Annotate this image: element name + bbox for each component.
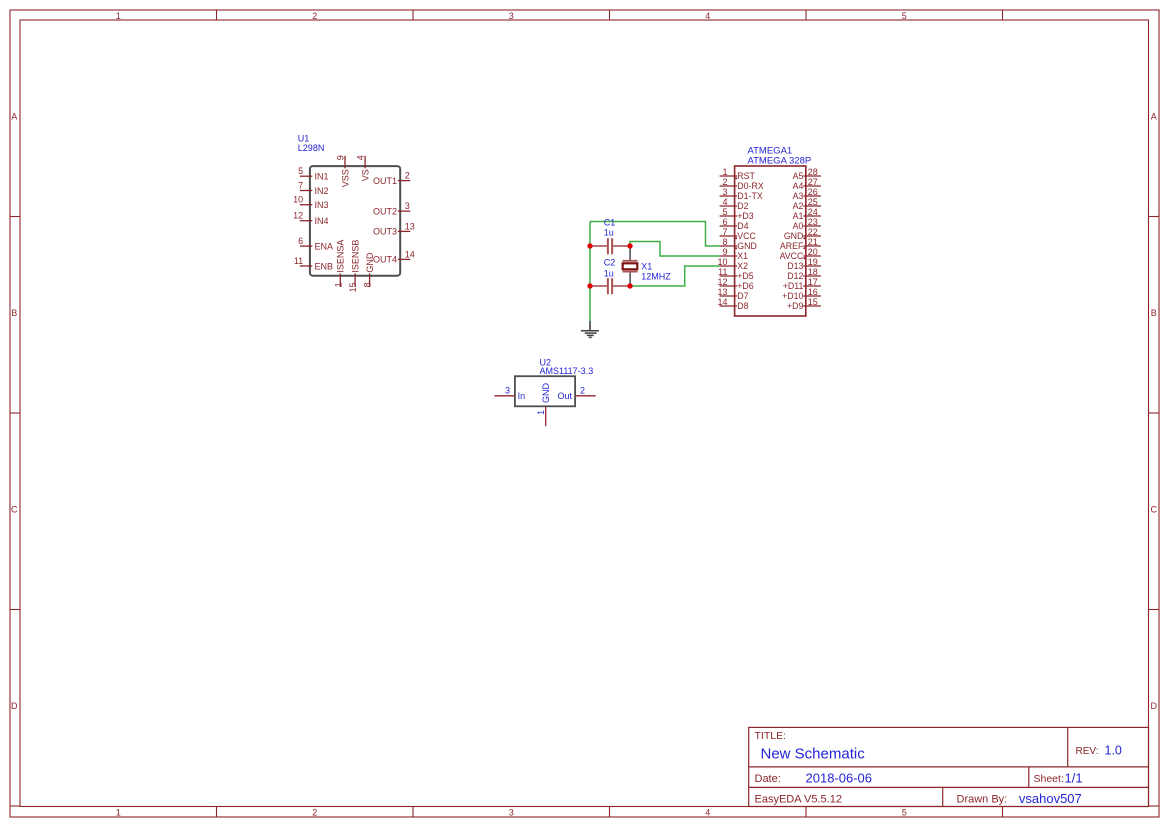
U1 pin 3 OUT2 xyxy=(373,201,410,216)
U1 pin 7 IN2 xyxy=(298,181,328,196)
svg-text:+D11: +D11 xyxy=(783,281,804,291)
ATMEGA1 pin 28 A5 xyxy=(793,167,821,181)
svg-text:GND: GND xyxy=(737,241,757,251)
svg-text:2: 2 xyxy=(312,807,317,817)
ATMEGA1 pin 15 +D9 xyxy=(787,297,821,311)
ATMEGA1 pin 7 VCC xyxy=(720,227,757,241)
ATMEGA1 pin 26 A3 xyxy=(793,187,821,201)
ATMEGA1 pin 22 GND xyxy=(784,227,821,241)
ATMEGA1 pin 17 +D11 xyxy=(783,277,821,291)
svg-text:IN4: IN4 xyxy=(315,216,329,226)
svg-text:14: 14 xyxy=(405,249,415,259)
U1 pin 14 OUT4 xyxy=(373,249,415,264)
junction GND bus / C1 xyxy=(587,243,592,248)
svg-text:D7: D7 xyxy=(737,291,748,301)
svg-text:8: 8 xyxy=(722,237,727,247)
svg-text:D2: D2 xyxy=(737,201,748,211)
svg-text:Date:: Date: xyxy=(755,773,781,785)
svg-text:+D6: +D6 xyxy=(737,281,753,291)
svg-text:6: 6 xyxy=(722,217,727,227)
ATMEGA1 pin 11 +D5 xyxy=(718,267,754,281)
svg-text:13: 13 xyxy=(717,287,727,297)
svg-text:1: 1 xyxy=(536,410,546,415)
svg-text:24: 24 xyxy=(808,207,818,217)
svg-text:C1: C1 xyxy=(604,218,616,228)
svg-text:A: A xyxy=(1151,111,1157,121)
U1 pin 13 OUT3 xyxy=(373,221,415,236)
svg-text:1/1: 1/1 xyxy=(1065,771,1083,786)
svg-text:B: B xyxy=(11,308,17,318)
svg-text:2: 2 xyxy=(312,11,317,21)
junction GND bus / C2 xyxy=(587,283,592,288)
svg-text:12: 12 xyxy=(717,277,727,287)
svg-text:Out: Out xyxy=(557,391,572,401)
svg-text:4: 4 xyxy=(705,807,710,817)
wire net GND: left bus vertical to ground xyxy=(589,222,591,322)
U1 pin 5 IN1 xyxy=(298,166,328,181)
svg-text:22: 22 xyxy=(808,227,818,237)
svg-text:ENB: ENB xyxy=(315,261,334,271)
svg-text:A2: A2 xyxy=(793,201,804,211)
svg-text:D: D xyxy=(1151,701,1158,711)
U1 pin 12 IN4 xyxy=(293,211,328,226)
svg-text:OUT3: OUT3 xyxy=(373,227,397,237)
svg-text:ISENSA: ISENSA xyxy=(336,240,346,273)
capacitor C2 xyxy=(590,278,630,294)
svg-text:2: 2 xyxy=(722,177,727,187)
svg-text:4: 4 xyxy=(722,197,727,207)
ATMEGA1 pin 5 +D3 xyxy=(720,207,754,221)
svg-text:D8: D8 xyxy=(737,301,748,311)
crystal X1 12MHZ xyxy=(623,247,638,285)
IC U1 L298N body xyxy=(310,166,400,276)
svg-text:IN3: IN3 xyxy=(315,200,329,210)
svg-text:9: 9 xyxy=(335,155,345,160)
svg-text:15: 15 xyxy=(808,297,818,307)
svg-text:OUT2: OUT2 xyxy=(373,206,397,216)
svg-text:13: 13 xyxy=(405,221,415,231)
ATMEGA1 pin 9 X1 xyxy=(720,247,749,261)
svg-text:A: A xyxy=(11,111,17,121)
U2 reference designator label xyxy=(540,358,594,376)
svg-text:7: 7 xyxy=(722,227,727,237)
svg-text:3: 3 xyxy=(405,201,410,211)
svg-text:VCC: VCC xyxy=(737,231,756,241)
svg-text:4: 4 xyxy=(705,11,710,21)
wire net XTAL2: C2 node to ATMEGA1 pin 10 xyxy=(630,266,720,286)
svg-text:ENA: ENA xyxy=(315,241,334,251)
svg-text:C: C xyxy=(1151,504,1158,514)
svg-text:OUT4: OUT4 xyxy=(373,255,397,265)
ATMEGA1 reference designator label xyxy=(748,146,812,167)
svg-text:IN2: IN2 xyxy=(315,186,329,196)
U1 pin 8 GND xyxy=(363,252,375,287)
svg-text:1u: 1u xyxy=(604,228,614,238)
svg-text:10: 10 xyxy=(293,195,303,205)
svg-text:A3: A3 xyxy=(793,191,804,201)
title block xyxy=(749,727,1149,806)
svg-text:OUT1: OUT1 xyxy=(373,176,397,186)
svg-text:U1: U1 xyxy=(298,133,310,143)
svg-text:19: 19 xyxy=(808,257,818,267)
svg-text:New Schematic: New Schematic xyxy=(761,745,866,762)
ATMEGA1 pin terminal dots xyxy=(735,177,805,259)
svg-text:Sheet:: Sheet: xyxy=(1034,773,1064,785)
ATMEGA1 pin 3 D1-TX xyxy=(720,187,763,201)
junction C1 / X1 / net XTAL1 xyxy=(627,243,632,248)
ATMEGA1 pin 24 A1 xyxy=(793,207,821,221)
svg-text:Drawn By:: Drawn By: xyxy=(957,794,1008,806)
U2 pin 2 Out xyxy=(557,385,595,401)
ATMEGA1 pin 6 D4 xyxy=(720,217,749,231)
svg-text:6: 6 xyxy=(298,236,303,246)
svg-text:1.0: 1.0 xyxy=(1105,743,1122,757)
U1 pin 6 ENA xyxy=(298,236,333,251)
ATMEGA1 pin 16 +D10 xyxy=(782,287,821,301)
svg-text:C2: C2 xyxy=(604,258,616,268)
ATMEGA1 pin 27 A4 xyxy=(793,177,821,191)
ATMEGA1 pin 14 D8 xyxy=(717,297,748,311)
U1 reference designator label xyxy=(298,133,325,153)
svg-text:11: 11 xyxy=(294,256,303,266)
ATMEGA1 pin 21 AREF xyxy=(780,237,821,251)
C2 value label xyxy=(604,258,616,279)
svg-text:28: 28 xyxy=(808,167,818,177)
ATMEGA1 pin 10 X2 xyxy=(717,257,748,271)
svg-text:27: 27 xyxy=(808,177,818,187)
svg-text:17: 17 xyxy=(808,277,818,287)
svg-text:D13: D13 xyxy=(787,261,803,271)
svg-text:1: 1 xyxy=(333,282,343,287)
svg-text:9: 9 xyxy=(722,247,727,257)
svg-text:D1-TX: D1-TX xyxy=(737,191,763,201)
ground symbol xyxy=(581,321,599,337)
svg-text:GND: GND xyxy=(365,252,375,273)
U2 pin 3 In xyxy=(494,385,525,401)
svg-text:2: 2 xyxy=(580,385,585,395)
svg-text:1: 1 xyxy=(116,807,121,817)
svg-text:7: 7 xyxy=(298,181,303,191)
svg-text:A5: A5 xyxy=(793,171,804,181)
svg-text:3: 3 xyxy=(509,11,514,21)
svg-text:A1: A1 xyxy=(793,211,804,221)
svg-text:GND: GND xyxy=(784,231,804,241)
svg-text:+D3: +D3 xyxy=(737,211,753,221)
svg-text:14: 14 xyxy=(717,297,727,307)
svg-text:21: 21 xyxy=(808,237,818,247)
ATMEGA1 pin 23 A0 xyxy=(793,217,821,231)
svg-text:+D10: +D10 xyxy=(782,291,803,301)
svg-text:X2: X2 xyxy=(737,261,748,271)
svg-text:18: 18 xyxy=(808,267,818,277)
svg-text:In: In xyxy=(518,391,526,401)
svg-text:X1: X1 xyxy=(641,262,652,272)
ATMEGA1 pin 2 D0-RX xyxy=(720,177,764,191)
U1 pin 15 ISENSB xyxy=(348,240,360,293)
svg-text:3: 3 xyxy=(722,187,727,197)
svg-text:vsahov507: vsahov507 xyxy=(1019,791,1082,806)
svg-text:5: 5 xyxy=(722,207,727,217)
U1 pin 4 VS xyxy=(356,155,371,181)
svg-text:12: 12 xyxy=(293,211,303,221)
svg-text:ISENSB: ISENSB xyxy=(351,240,361,273)
svg-text:D4: D4 xyxy=(737,221,748,231)
svg-text:5: 5 xyxy=(298,166,303,176)
ATMEGA1 pin 18 D12 xyxy=(787,267,821,281)
svg-text:1: 1 xyxy=(722,167,727,177)
svg-text:TITLE:: TITLE: xyxy=(755,730,787,742)
svg-text:D: D xyxy=(11,701,18,711)
svg-text:16: 16 xyxy=(808,287,818,297)
svg-text:23: 23 xyxy=(808,217,818,227)
svg-text:15: 15 xyxy=(348,282,358,292)
svg-text:A0: A0 xyxy=(793,221,804,231)
svg-text:5: 5 xyxy=(902,807,907,817)
U2 pin 1 GND xyxy=(536,383,551,427)
IC ATMEGA1 ATMEGA 328P body xyxy=(735,166,806,316)
svg-text:C: C xyxy=(11,504,18,514)
svg-text:RST: RST xyxy=(737,171,755,181)
wire net GND: top run to ATMEGA1 pin 8 xyxy=(590,222,720,247)
svg-text:GND: GND xyxy=(541,383,551,404)
svg-text:25: 25 xyxy=(808,197,818,207)
U1 pin 1 ISENSA xyxy=(333,240,345,288)
capacitor C1 xyxy=(590,238,630,254)
ATMEGA1 pin 20 AVCC xyxy=(780,247,821,261)
svg-text:+D5: +D5 xyxy=(737,271,753,281)
svg-text:AMS1117-3.3: AMS1117-3.3 xyxy=(540,366,594,376)
svg-text:D0-RX: D0-RX xyxy=(737,181,764,191)
svg-text:X1: X1 xyxy=(737,251,748,261)
ATMEGA1 pin 4 D2 xyxy=(720,197,749,211)
svg-text:26: 26 xyxy=(808,187,818,197)
svg-text:VSS: VSS xyxy=(340,169,350,187)
svg-text:8: 8 xyxy=(363,282,373,287)
svg-text:3: 3 xyxy=(509,807,514,817)
svg-text:5: 5 xyxy=(902,11,907,21)
svg-text:ATMEGA 328P: ATMEGA 328P xyxy=(748,155,812,166)
svg-text:11: 11 xyxy=(718,267,727,277)
ATMEGA1 pin 13 D7 xyxy=(717,287,748,301)
svg-text:4: 4 xyxy=(356,155,366,160)
svg-text:D12: D12 xyxy=(787,271,803,281)
svg-text:3: 3 xyxy=(505,385,510,395)
ATMEGA1 pin 19 D13 xyxy=(787,257,821,271)
svg-text:L298N: L298N xyxy=(298,143,325,153)
svg-text:+D9: +D9 xyxy=(787,301,803,311)
svg-text:REV:: REV: xyxy=(1076,746,1099,757)
U1 pin 10 IN3 xyxy=(293,195,328,210)
junction C2 / X1 / net XTAL2 xyxy=(627,283,632,288)
svg-text:A4: A4 xyxy=(793,181,804,191)
svg-text:12MHZ: 12MHZ xyxy=(641,272,671,282)
svg-text:AVCC: AVCC xyxy=(780,251,804,261)
svg-text:2: 2 xyxy=(405,171,410,181)
ATMEGA1 pin 1 RST xyxy=(720,167,756,181)
U1 pin 2 OUT1 xyxy=(373,171,410,186)
svg-text:EasyEDA V5.5.12: EasyEDA V5.5.12 xyxy=(755,794,842,806)
U1 pin 11 ENB xyxy=(294,256,333,271)
ATMEGA1 pin 12 +D6 xyxy=(717,277,753,291)
U1 pin 9 VSS xyxy=(335,155,350,187)
C1 value label xyxy=(604,218,616,238)
svg-text:1u: 1u xyxy=(604,268,614,278)
ATMEGA1 pin 8 GND xyxy=(720,237,757,251)
X1 value label xyxy=(641,262,671,282)
wire net XTAL1: C1 node to ATMEGA1 pin 9 xyxy=(630,242,720,257)
svg-text:1: 1 xyxy=(116,11,121,21)
svg-text:2018-06-06: 2018-06-06 xyxy=(806,771,873,786)
svg-text:AREF: AREF xyxy=(780,241,804,251)
svg-text:B: B xyxy=(1151,308,1157,318)
svg-text:IN1: IN1 xyxy=(315,172,329,182)
svg-text:VS: VS xyxy=(361,169,371,181)
ATMEGA1 pin 25 A2 xyxy=(793,197,821,211)
regulator U2 AMS1117-3.3 body xyxy=(515,376,575,406)
svg-text:20: 20 xyxy=(808,247,818,257)
